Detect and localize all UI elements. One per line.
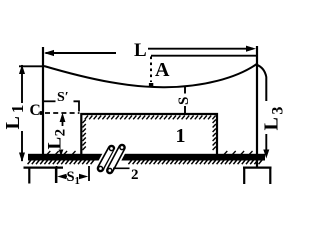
svg-text:L: L	[134, 40, 147, 61]
L2 shaft	[62, 121, 64, 126]
svg-text:C: C	[30, 102, 41, 119]
S1 extension line left	[56, 166, 58, 183]
S1 shaft left	[65, 176, 67, 178]
svg-text:S′: S′	[57, 90, 69, 105]
left post	[42, 47, 44, 155]
S1 shaft right	[79, 176, 82, 178]
left support bar	[24, 167, 64, 169]
dimension L right arrow	[246, 46, 256, 52]
block 1 right edge hatching	[213, 120, 216, 151]
dimension L line right segment	[148, 48, 253, 50]
L1 up arrow	[19, 65, 25, 75]
S1 left arrow	[57, 174, 66, 179]
right support bar	[243, 167, 272, 169]
S1 right arrow	[79, 174, 88, 179]
right support leg b	[269, 168, 271, 184]
ground hatching below	[28, 160, 262, 164]
line from A to right post	[151, 55, 256, 57]
svg-text:A: A	[155, 59, 170, 81]
S' dimension line left part	[44, 100, 56, 102]
L3 down arrow	[263, 150, 269, 159]
rope curve	[44, 65, 266, 102]
right support leg a	[243, 168, 245, 184]
roller 2 right rod	[108, 145, 124, 172]
dimension L1 line lower	[21, 131, 23, 161]
S' dimension hook to block corner	[74, 101, 80, 111]
svg-text:S: S	[176, 97, 192, 105]
s hanger line	[184, 87, 186, 94]
roller 2 left rod	[98, 146, 113, 170]
L2 down arrow	[59, 150, 64, 157]
dashed line from C	[45, 112, 80, 114]
ground hatching above right of block	[224, 151, 253, 155]
point A marker	[149, 83, 153, 87]
L3 dimension line lower	[265, 134, 267, 151]
dimension L left arrow	[44, 50, 54, 56]
L1 down arrow	[19, 153, 25, 163]
block 1 left edge hatching	[83, 120, 86, 151]
point C marker	[40, 111, 44, 115]
right post	[256, 46, 258, 167]
ground bar	[28, 154, 265, 161]
extension line top-left	[19, 65, 44, 67]
L2 up arrow	[60, 113, 66, 122]
dotted line to point A	[150, 57, 152, 83]
block 1 top hatching	[85, 116, 216, 120]
S1 extension line right	[88, 166, 90, 181]
svg-text:2: 2	[131, 167, 139, 183]
left support leg a	[28, 168, 30, 184]
ground hatching above left of block	[47, 151, 76, 155]
svg-text:1: 1	[176, 125, 186, 147]
dimension L1 line upper	[21, 65, 23, 103]
leader line to 2	[113, 167, 130, 169]
dimension L line left segment	[46, 52, 117, 54]
left support leg b	[55, 168, 57, 183]
block 1 outline	[81, 114, 217, 155]
